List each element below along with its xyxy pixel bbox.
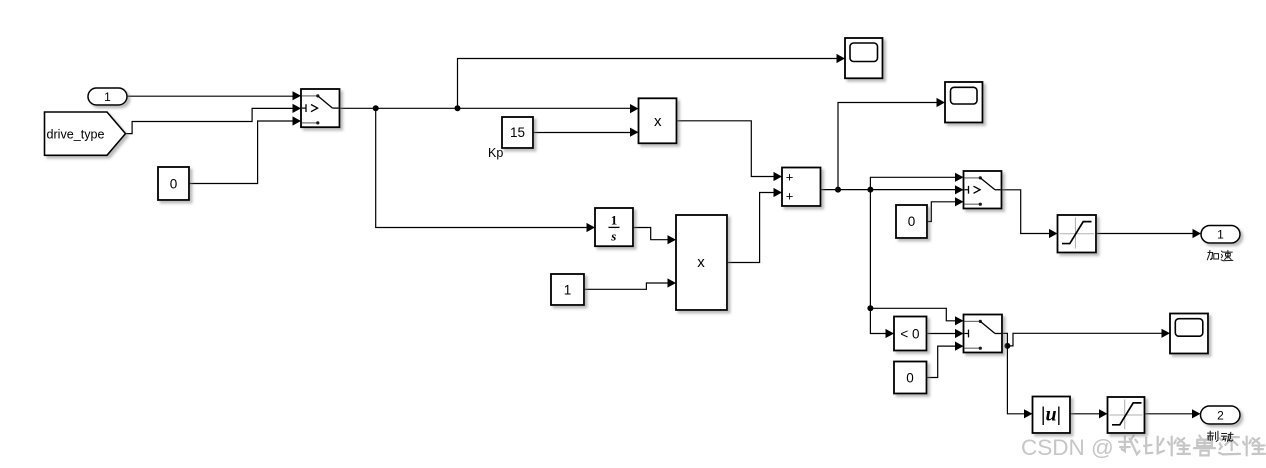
- switch SW1: [301, 89, 340, 127]
- saturation SAT2: [1108, 397, 1145, 433]
- svg-text:15: 15: [510, 125, 525, 140]
- svg-text:< 0: < 0: [900, 326, 919, 341]
- wire Saturation2 to Outport2: [1145, 409, 1201, 418]
- scope Scope4: [1170, 314, 1208, 354]
- constant 15 Kp: [502, 117, 533, 148]
- wire junction F down to Abs: [1007, 346, 1032, 419]
- svg-text:0: 0: [170, 176, 178, 191]
- sum S1: [782, 168, 821, 207]
- label Kp: [488, 146, 503, 160]
- node junction B: [455, 105, 461, 111]
- wire Constant15 to Product1 input2: [533, 128, 639, 137]
- constant 0 (third): [894, 362, 927, 394]
- wire junction E down to Compare: [870, 308, 894, 338]
- svg-text:s: s: [610, 229, 616, 244]
- wire junction B up to Scope1: [458, 54, 846, 108]
- scope Scope1: [845, 38, 883, 78]
- svg-text:x: x: [697, 254, 705, 271]
- wire Integrator output to Product2 input1: [633, 228, 676, 245]
- svg-text:+: +: [786, 170, 794, 185]
- node junction D: [867, 187, 873, 193]
- svg-text:|u|: |u|: [1041, 404, 1061, 426]
- svg-text:1: 1: [611, 213, 618, 228]
- switch SW3: [964, 171, 1002, 209]
- wire junction D down to junction E: [869, 190, 871, 309]
- wire Constant0c to Switch4 input3: [927, 342, 964, 378]
- wire Constant0a to Switch1 input3: [189, 116, 301, 183]
- wire Product2 output to Sum input2: [727, 188, 782, 263]
- svg-text:1: 1: [104, 90, 111, 104]
- svg-text:0: 0: [908, 214, 916, 229]
- wire Inport1 to Switch1 input1: [127, 91, 301, 100]
- saturation SAT1: [1058, 215, 1097, 253]
- svg-text:1: 1: [1217, 228, 1224, 242]
- switch SW4: [964, 315, 1003, 353]
- inport 1: [88, 88, 127, 105]
- wire Switch1 output to Product1 input1: [340, 104, 639, 113]
- node junction E: [867, 305, 873, 311]
- svg-text:1: 1: [564, 282, 572, 297]
- node junction A: [373, 105, 379, 111]
- wire junction A down to Integrator: [376, 108, 595, 232]
- svg-text:2: 2: [1217, 409, 1224, 423]
- wire junction C up to Scope2: [838, 98, 945, 190]
- node junction F: [1004, 343, 1010, 349]
- wire Product1 output to Sum input1: [677, 121, 783, 181]
- watermark CSDN @我比怪兽还怪: [1021, 435, 1265, 460]
- wire Constant0b to Switch3 input3: [927, 197, 964, 221]
- label 制动: [1208, 431, 1234, 441]
- svg-text:x: x: [654, 113, 662, 130]
- compare < 0: [894, 317, 927, 351]
- node junction C: [835, 187, 841, 193]
- from tag drive_type: [45, 112, 126, 155]
- outport 1: [1201, 226, 1240, 244]
- constant 0 (second): [896, 205, 927, 238]
- wire Switch3 output to Saturation1: [1002, 190, 1058, 238]
- wire Switch4 output to Scope4: [1002, 329, 1170, 346]
- wire Abs to Saturation2: [1070, 409, 1108, 418]
- svg-text:+: +: [786, 188, 794, 203]
- abs |u|: [1033, 397, 1071, 434]
- label 加速: [1207, 250, 1233, 260]
- wire Saturation1 to Outport1: [1096, 229, 1201, 238]
- product P2: [676, 215, 727, 310]
- svg-text:0: 0: [906, 371, 914, 386]
- constant 0 (first): [158, 167, 189, 200]
- svg-text:CSDN @: CSDN @: [1021, 435, 1114, 460]
- scope Scope2: [945, 82, 983, 123]
- wire Compare output to Switch4 input2: [927, 329, 964, 338]
- outport 2: [1201, 406, 1241, 424]
- svg-text:drive_type: drive_type: [47, 128, 105, 142]
- integrator 1/s: [595, 208, 633, 246]
- wire junction E to Switch4 input1: [870, 308, 963, 325]
- constant 1: [551, 274, 584, 305]
- svg-text:Kp: Kp: [488, 146, 503, 160]
- wire Constant1 to Product2 input2: [584, 278, 676, 289]
- wire drive_type to Switch1 input2: [126, 104, 302, 134]
- product P1: [639, 98, 677, 143]
- wire junction D to Switch3 input1: [870, 173, 963, 190]
- wire Sum output to Switch3 input2: [821, 185, 964, 194]
